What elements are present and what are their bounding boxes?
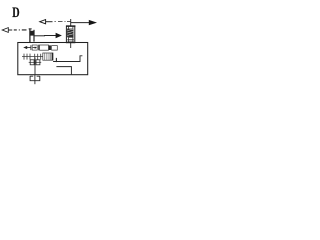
valve tick 2 [38, 45, 40, 51]
junction tick [55, 58, 57, 62]
arrow left top (open head) [40, 20, 53, 24]
piston rod [35, 35, 46, 37]
pipe upper [53, 56, 82, 62]
cylinder rect row1 [40, 45, 49, 50]
valve tick 1 [30, 45, 32, 50]
tank box [18, 43, 88, 75]
piston ticks row2 b [35, 54, 41, 60]
svg-text:D: D [12, 5, 20, 21]
filter body [30, 76, 40, 81]
pipe lower [56, 67, 71, 75]
hatched block row2 [43, 53, 53, 61]
piston block row1 [49, 45, 51, 50]
valve square with arrow [32, 45, 37, 50]
column stub in box [70, 43, 72, 48]
arrow right top (filled) [71, 20, 97, 25]
rod row2 [22, 56, 43, 58]
filter centerline [34, 75, 36, 85]
coupling squares [29, 60, 42, 65]
centerline dash-dot mid [14, 29, 27, 31]
workpiece column (hatched) [66, 26, 75, 43]
table bracket [29, 28, 35, 42]
valve arrow left (row1) [23, 46, 30, 49]
arrow right mid (filled) [44, 33, 62, 38]
arrow left mid (open head) [2, 28, 12, 33]
centerline vertical of column [70, 19, 72, 26]
centerline dash-dot top [55, 21, 71, 23]
coupling centerline [34, 57, 36, 75]
piston ticks row2 [24, 54, 30, 60]
rect right row1 [52, 46, 58, 51]
